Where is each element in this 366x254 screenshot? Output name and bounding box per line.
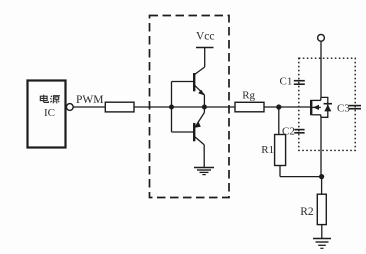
svg-text:Vcc: Vcc: [196, 31, 215, 43]
svg-text:Rg: Rg: [242, 90, 255, 102]
svg-text:C2: C2: [282, 125, 295, 137]
svg-text:PWM: PWM: [76, 94, 103, 106]
svg-text:R2: R2: [300, 206, 314, 218]
svg-text:R1: R1: [261, 144, 274, 156]
svg-text:C1: C1: [280, 76, 293, 88]
svg-text:IC: IC: [44, 107, 55, 119]
svg-text:C3: C3: [337, 103, 350, 115]
